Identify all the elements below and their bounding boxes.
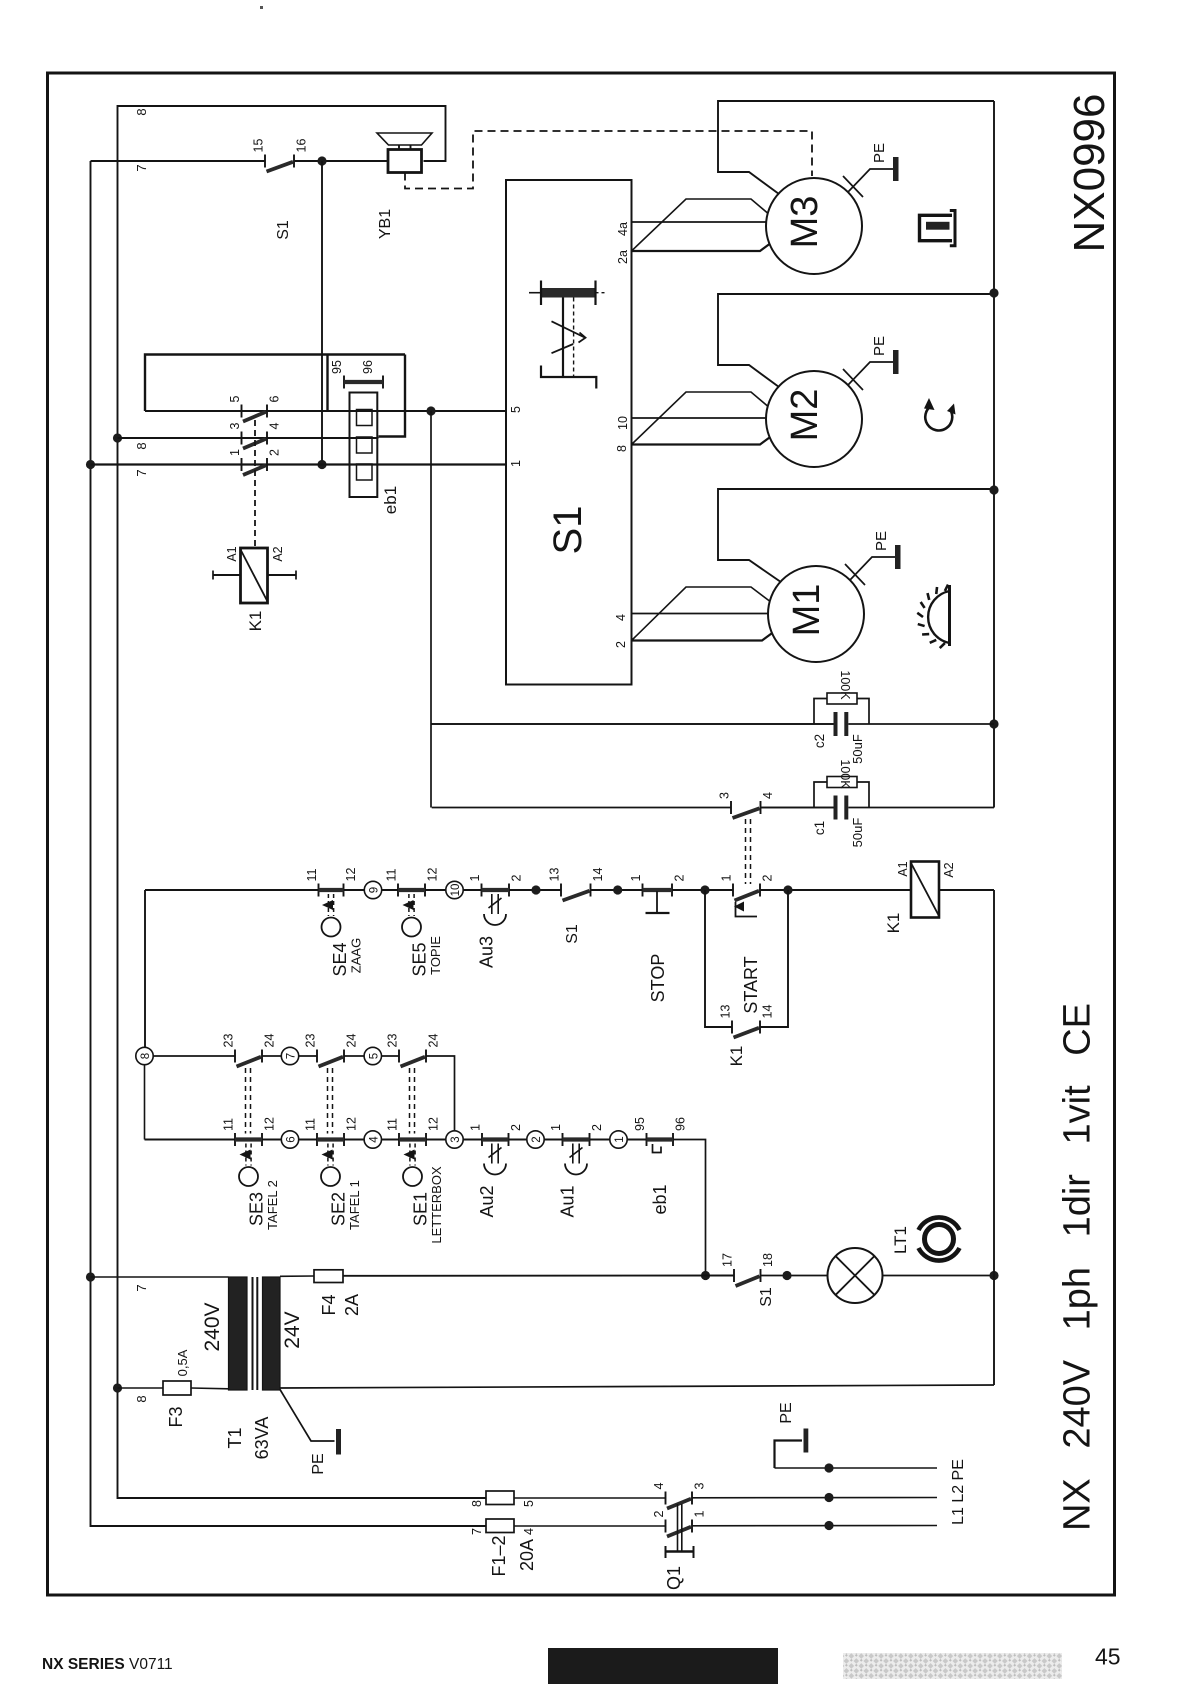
label SE2 <box>329 1180 363 1230</box>
footer black redaction bar <box>548 1648 778 1684</box>
svg-text:11: 11 <box>222 1118 236 1131</box>
svg-text:96: 96 <box>674 1117 688 1131</box>
Au2 actuator <box>484 1144 506 1175</box>
svg-text:1: 1 <box>509 460 523 467</box>
wire control return (0V) <box>280 1385 994 1388</box>
svg-text:A1: A1 <box>896 861 910 876</box>
pin 4 (F1-2) <box>522 1528 536 1535</box>
svg-text:96: 96 <box>361 360 375 374</box>
pin 5 (F1-2) <box>522 1500 536 1507</box>
junction row1 b <box>613 885 622 894</box>
svg-text:100K: 100K <box>838 670 852 700</box>
svg-text:8: 8 <box>470 1500 484 1507</box>
svg-text:1: 1 <box>549 1124 563 1131</box>
pin 12 (SE1) <box>427 1117 441 1131</box>
pin 11 (SE4) <box>305 868 319 881</box>
svg-text:PE: PE <box>871 336 888 356</box>
svg-text:7: 7 <box>134 1284 149 1291</box>
pin 5 (S1 box left) <box>509 406 523 413</box>
pin 11 (SE5) <box>385 868 399 881</box>
svg-text:24: 24 <box>427 1034 441 1048</box>
safety switch SE4 contact 11-12 <box>319 884 344 897</box>
transformer T1 primary winding <box>229 1277 248 1390</box>
svg-text:1: 1 <box>228 449 242 456</box>
value 100K (c2) <box>838 670 852 700</box>
contactor coil K1 (left) <box>213 548 296 603</box>
pin A2 (K1 coil) <box>942 862 956 877</box>
svg-text:2: 2 <box>761 875 775 882</box>
svg-text:5: 5 <box>522 1500 536 1507</box>
svg-text:1: 1 <box>469 1124 483 1131</box>
junction row1 d <box>783 885 792 894</box>
node 2 circle <box>527 1131 544 1148</box>
svg-text:63VA: 63VA <box>252 1417 272 1460</box>
node label 7 at T1 <box>134 1284 149 1291</box>
pin 8 (F1-2) <box>470 1500 484 1507</box>
dashed link S1-3-4 to START <box>746 819 751 884</box>
svg-text:1: 1 <box>468 875 482 882</box>
svg-text:4: 4 <box>368 1136 380 1143</box>
wire cap feeder vertical <box>430 411 432 808</box>
value 20A <box>517 1539 537 1571</box>
wire row 3-4 <box>118 437 379 439</box>
svg-text:3: 3 <box>718 792 732 799</box>
svg-text:SE5: SE5 <box>410 942 430 976</box>
svg-text:0,5A: 0,5A <box>175 1349 190 1376</box>
title NX 240V 1ph 1dir 1vit CE <box>1057 1003 1099 1531</box>
pin 11 (SE2) <box>304 1118 318 1131</box>
svg-text:13: 13 <box>719 1005 733 1019</box>
label F1-2 <box>489 1535 509 1576</box>
pin 10 (S1 box) <box>616 416 630 430</box>
node 7 circle <box>281 1047 298 1064</box>
svg-text:2a: 2a <box>616 250 630 264</box>
label c2 <box>812 734 827 748</box>
svg-text:1: 1 <box>629 875 643 882</box>
svg-text:TOPIE: TOPIE <box>428 936 443 975</box>
junction row1 a <box>531 885 540 894</box>
pin 2 (STOP) <box>673 875 687 882</box>
pin 13 <box>548 868 562 882</box>
junction bus/c2 <box>989 719 998 728</box>
label S1 (17-18) <box>758 1287 775 1307</box>
capacitor c1 50uF <box>761 796 995 820</box>
svg-text:eb1: eb1 <box>381 486 400 514</box>
main switch Q1 pole lower <box>514 1520 937 1537</box>
key switch Au2 contact 1-2 <box>482 1133 509 1146</box>
svg-text:45: 45 <box>1095 1644 1121 1670</box>
ground PE at M2 <box>843 350 899 390</box>
svg-text:23: 23 <box>304 1034 318 1048</box>
svg-text:95: 95 <box>330 360 344 374</box>
svg-text:1: 1 <box>720 875 734 882</box>
node 4 circle <box>364 1131 381 1148</box>
pin 12 (SE3) <box>263 1117 277 1131</box>
wire net 7 top run <box>91 161 487 1526</box>
SE3 roller actuator <box>239 1144 258 1187</box>
svg-text:A2: A2 <box>942 862 956 877</box>
contact K1 13-14 <box>732 1021 760 1038</box>
label Au1 <box>558 1185 578 1217</box>
label eb1 <box>650 1184 670 1214</box>
svg-text:3: 3 <box>228 423 242 430</box>
pin 2 (Au1) <box>590 1124 604 1131</box>
wire bridge at M3 <box>632 199 768 251</box>
switch S1 contact 3-4 <box>731 801 834 818</box>
pin 2 (Au3) <box>510 875 524 882</box>
label SE5 <box>410 936 444 977</box>
ground PE incomer <box>775 1429 809 1469</box>
node label 8 at F3 <box>134 1395 149 1402</box>
svg-text:13: 13 <box>548 868 562 882</box>
overload eb1 contact 95-96 <box>647 1133 674 1153</box>
svg-text:Au1: Au1 <box>558 1185 578 1217</box>
svg-text:ZAAG: ZAAG <box>349 938 364 973</box>
value 50uF (c1) <box>850 818 865 848</box>
pin 2 (Au2) <box>509 1124 523 1131</box>
svg-text:6: 6 <box>286 1136 298 1142</box>
switch S1 contact 13-14 <box>561 884 591 901</box>
pin 23 (SE3) <box>222 1034 236 1048</box>
label Au2 <box>477 1185 497 1217</box>
label F4 <box>319 1294 339 1315</box>
junction net8/F3 <box>113 1383 122 1392</box>
pin 12 (SE4) <box>344 868 358 882</box>
pin 15 <box>252 139 266 153</box>
svg-text:NX 240V 1ph 1dir 1vit CE: NX 240V 1ph 1dir 1vit CE <box>1057 1003 1099 1531</box>
wire 4a to M3 <box>632 221 767 223</box>
svg-text:M2: M2 <box>784 389 826 442</box>
brake solenoid YB1 <box>377 133 432 173</box>
svg-text:1: 1 <box>693 1511 707 1518</box>
svg-text:2: 2 <box>510 875 524 882</box>
safety switch SE2 contact 23-24 <box>317 1050 344 1067</box>
node 6 circle <box>281 1131 298 1148</box>
Au3 actuator <box>484 894 506 925</box>
svg-text:YB1: YB1 <box>377 209 394 239</box>
wire S1-16 down to row1-2 <box>321 161 323 465</box>
motor M1 feeder outline <box>718 489 994 584</box>
motor M3 circle <box>766 178 862 274</box>
pin 4 <box>268 423 282 430</box>
lamp LT1 <box>828 1248 995 1303</box>
SE5 actuator <box>402 894 421 937</box>
motor M2 circle <box>766 371 862 467</box>
contactor K1 pole 1-2 <box>242 458 268 475</box>
wire 2 to M1 <box>632 634 772 641</box>
contactor coil K1 (control) <box>911 862 939 918</box>
pin 14 (K1) <box>761 1005 775 1019</box>
svg-text:3: 3 <box>450 1136 462 1142</box>
label SE3 <box>247 1180 281 1230</box>
page number 45 <box>1095 1644 1121 1670</box>
svg-text:240V: 240V <box>201 1302 224 1351</box>
svg-text:M3: M3 <box>784 196 826 249</box>
svg-text:F4: F4 <box>319 1294 339 1315</box>
svg-text:8: 8 <box>140 1053 152 1059</box>
pin 1 (Q1) <box>693 1511 707 1518</box>
svg-text:PE: PE <box>778 1402 795 1423</box>
label STOP <box>648 954 668 1003</box>
icon beacon at LT1 <box>919 1217 960 1260</box>
svg-text:2: 2 <box>268 449 282 456</box>
transformer T1 secondary winding <box>263 1277 281 1390</box>
dashed link SE1 <box>410 1068 415 1134</box>
pin 1 (STOP) <box>629 875 643 882</box>
label eb1 (power) <box>381 486 400 514</box>
label M2 <box>784 389 826 442</box>
scan speck <box>260 6 263 9</box>
junction row1 c <box>700 885 709 894</box>
svg-text:24V: 24V <box>281 1311 304 1348</box>
pin 7 (F1-2) <box>470 1528 484 1535</box>
svg-text:F1–2: F1–2 <box>489 1535 509 1576</box>
node net-7 label top <box>134 164 149 171</box>
svg-text:PE: PE <box>873 531 890 551</box>
Au1 actuator <box>565 1144 587 1175</box>
svg-text:START: START <box>741 956 761 1013</box>
motor M1 circle <box>768 566 864 662</box>
value 0,5A <box>175 1349 190 1376</box>
svg-text:SE2: SE2 <box>329 1192 349 1226</box>
value 240V <box>201 1302 224 1351</box>
svg-text:S1: S1 <box>546 506 590 555</box>
node 9 <box>364 881 381 898</box>
pin 24 (SE1) <box>427 1034 441 1048</box>
pin A2 (left coil) <box>271 546 285 561</box>
pin 96 (eb1) <box>674 1117 688 1131</box>
label S1 (13-14) <box>564 924 581 944</box>
wire row 5-6 with bridge to eb1 box <box>145 355 506 412</box>
label K1 (left coil) <box>246 611 265 632</box>
value 24V <box>281 1311 304 1348</box>
label c1 <box>812 821 827 835</box>
svg-text:NX0996: NX0996 <box>1065 93 1114 252</box>
pin 23 (SE1) <box>386 1034 400 1048</box>
svg-text:12: 12 <box>263 1117 277 1131</box>
wire net 8 top run <box>118 106 487 1498</box>
svg-text:A1: A1 <box>225 546 239 561</box>
svg-text:14: 14 <box>761 1005 775 1019</box>
title NX0996 <box>1065 93 1114 252</box>
pin 1 (START) <box>720 875 734 882</box>
ground PE at M1 <box>845 545 901 585</box>
svg-text:16: 16 <box>295 139 309 153</box>
svg-text:95: 95 <box>633 1117 647 1131</box>
svg-text:5: 5 <box>368 1053 380 1059</box>
pin 8 (S1 box) <box>615 445 629 452</box>
ground PE at M3 <box>843 157 899 197</box>
safety switch SE2 contact 11-12 <box>317 1133 344 1146</box>
pin 3 <box>228 423 242 430</box>
pin 24 (SE2) <box>345 1034 359 1048</box>
junction row5-6 / cap feeder <box>426 406 435 415</box>
safety switch SE1 contact 11-12 <box>399 1133 426 1146</box>
node net-8 label top <box>134 108 149 115</box>
svg-text:15: 15 <box>252 139 266 153</box>
fuse F3 0,5A <box>118 1381 229 1395</box>
safety switch SE3 contact 23-24 <box>235 1050 262 1067</box>
fuse F1-2 upper (net 8) <box>486 1491 514 1505</box>
svg-text:K1: K1 <box>884 913 903 934</box>
svg-text:L1 L2 PE: L1 L2 PE <box>950 1459 967 1525</box>
svg-text:2: 2 <box>509 1124 523 1131</box>
safety switch SE1 contact 23-24 <box>399 1050 426 1067</box>
svg-text:12: 12 <box>426 868 440 882</box>
node net-7 label at row1-2 <box>134 469 149 476</box>
svg-text:11: 11 <box>386 1118 400 1131</box>
pin 12 (SE5) <box>426 868 440 882</box>
SE1 roller actuator <box>403 1144 422 1187</box>
pin 11 (SE1) <box>386 1118 400 1131</box>
svg-text:23: 23 <box>386 1034 400 1048</box>
wire PE bus right <box>993 101 995 808</box>
svg-text:5: 5 <box>509 406 523 413</box>
wire row 1-2 <box>91 463 507 465</box>
label Au3 <box>477 936 497 968</box>
label PE at M3 <box>871 143 888 163</box>
label K1 (13-14) <box>727 1046 746 1067</box>
svg-text:F3: F3 <box>166 1406 186 1427</box>
pin 2a (S1 box) <box>616 250 630 264</box>
svg-text:K1: K1 <box>727 1046 746 1067</box>
svg-text:8: 8 <box>134 1395 149 1402</box>
value 100K (c1) <box>838 759 852 789</box>
START actuator <box>734 902 757 917</box>
svg-text:8: 8 <box>615 445 629 452</box>
svg-text:Q1: Q1 <box>664 1566 684 1590</box>
svg-text:4: 4 <box>268 423 282 430</box>
junction S1-16 / YB1 <box>317 156 326 165</box>
icon letterbox at M3 <box>920 211 956 246</box>
terminal PE in <box>775 1463 938 1472</box>
wire eb1 to lamp row <box>673 1140 706 1276</box>
resistor 100K at c2 <box>814 693 869 724</box>
svg-text:4: 4 <box>522 1528 536 1535</box>
pushbutton START contact 1-2 <box>733 884 760 901</box>
wire 10 to M2 <box>632 417 767 419</box>
Q1 mechanical link and handle <box>666 1504 694 1558</box>
pin 3 (Q1) <box>693 1483 707 1490</box>
svg-text:100K: 100K <box>838 759 852 789</box>
pin 16 <box>295 139 309 153</box>
contactor K1 pole 3-4 <box>242 432 268 449</box>
svg-text:20A: 20A <box>517 1539 537 1571</box>
main switch Q1 pole upper <box>514 1492 937 1509</box>
pin 95 (eb1) <box>633 1117 647 1131</box>
junction net7/T1 primary <box>86 1272 95 1281</box>
junction net7/row1-2 <box>86 460 95 469</box>
terminal L1 <box>824 1521 833 1530</box>
svg-text:50uF: 50uF <box>850 818 865 848</box>
svg-text:LT1: LT1 <box>891 1226 910 1254</box>
junction bus/M2 top <box>989 288 998 297</box>
value 2A <box>342 1294 362 1316</box>
pin A1 (left coil) <box>225 546 239 561</box>
key switch Au3 contact 1-2 <box>482 884 510 897</box>
footer pixelated redaction <box>843 1653 1062 1679</box>
pin 13 (K1) <box>719 1005 733 1019</box>
motor M3 feeder outline <box>718 101 994 196</box>
label YB1 <box>377 209 394 239</box>
svg-text:STOP: STOP <box>648 954 668 1003</box>
svg-text:T1: T1 <box>225 1427 245 1448</box>
svg-text:LETTERBOX: LETTERBOX <box>429 1166 444 1244</box>
junction bus/M1 top <box>989 485 998 494</box>
pin 1 (Au1) <box>549 1124 563 1131</box>
fuse F1-2 lower (net 7) <box>486 1519 514 1533</box>
label T1 <box>225 1427 245 1448</box>
wire bridge at M2 <box>632 392 768 445</box>
label START <box>741 956 761 1013</box>
pin 3 (S1 3-4) <box>718 792 732 799</box>
svg-text:c2: c2 <box>812 734 827 748</box>
svg-text:2: 2 <box>531 1136 543 1142</box>
svg-text:PE: PE <box>310 1453 327 1474</box>
svg-text:2: 2 <box>614 641 628 648</box>
svg-text:TAFEL 2: TAFEL 2 <box>265 1180 280 1230</box>
svg-text:8: 8 <box>134 108 149 115</box>
node 1 circle <box>610 1131 627 1148</box>
wire c1 row left <box>432 807 731 809</box>
svg-text:4: 4 <box>614 614 628 621</box>
wire 2a to M3 <box>632 244 770 251</box>
svg-text:4: 4 <box>761 792 775 799</box>
pin 17 <box>721 1253 735 1267</box>
label Q1 <box>664 1566 684 1590</box>
svg-text:12: 12 <box>345 1117 359 1131</box>
ground PE at T1 <box>280 1390 341 1455</box>
pin 1 <box>228 449 242 456</box>
icon saw blade at M1 <box>917 585 949 648</box>
svg-text:TAFEL 1: TAFEL 1 <box>347 1180 362 1230</box>
key switch Au1 contact 1-2 <box>563 1133 590 1146</box>
safety switch SE3 contact 11-12 <box>235 1133 262 1146</box>
node 10 <box>446 881 463 898</box>
pin 11 (SE3) <box>222 1118 236 1131</box>
node 8 circle <box>136 1047 153 1139</box>
resistor 100K at c1 <box>814 777 869 808</box>
overload eb1 aux contact 95-96 (power side) <box>344 376 383 389</box>
transformer T1 core <box>253 1277 258 1390</box>
pin 96 (power eb1) <box>361 360 375 374</box>
svg-text:SE1: SE1 <box>411 1192 431 1226</box>
svg-text:18: 18 <box>761 1253 775 1267</box>
pin 1 (S1 box left) <box>509 460 523 467</box>
label S1 (big) <box>546 506 590 555</box>
svg-text:12: 12 <box>427 1117 441 1131</box>
pin 2 (S1 box) <box>614 641 628 648</box>
svg-text:9: 9 <box>369 887 381 893</box>
svg-text:11: 11 <box>304 1118 318 1131</box>
svg-text:K1: K1 <box>246 611 265 632</box>
pin A1 (K1 coil) <box>896 861 910 876</box>
labels L1 L2 PE <box>950 1459 967 1525</box>
junction net8/row3-4 <box>113 433 122 442</box>
pin 1 (Au2) <box>469 1124 483 1131</box>
capacitor c2 50uF <box>431 712 994 736</box>
svg-text:2: 2 <box>652 1511 666 1518</box>
wire 8 to M2 <box>632 438 770 445</box>
pin 18 <box>761 1253 775 1267</box>
pin 2 (Q1) <box>652 1511 666 1518</box>
svg-text:11: 11 <box>385 868 399 881</box>
cam switch S1 box <box>506 180 632 685</box>
wire control row 3 <box>145 1139 647 1141</box>
label PE incomer <box>778 1402 795 1423</box>
svg-text:4a: 4a <box>616 222 630 236</box>
node 5 circle <box>364 1047 381 1064</box>
